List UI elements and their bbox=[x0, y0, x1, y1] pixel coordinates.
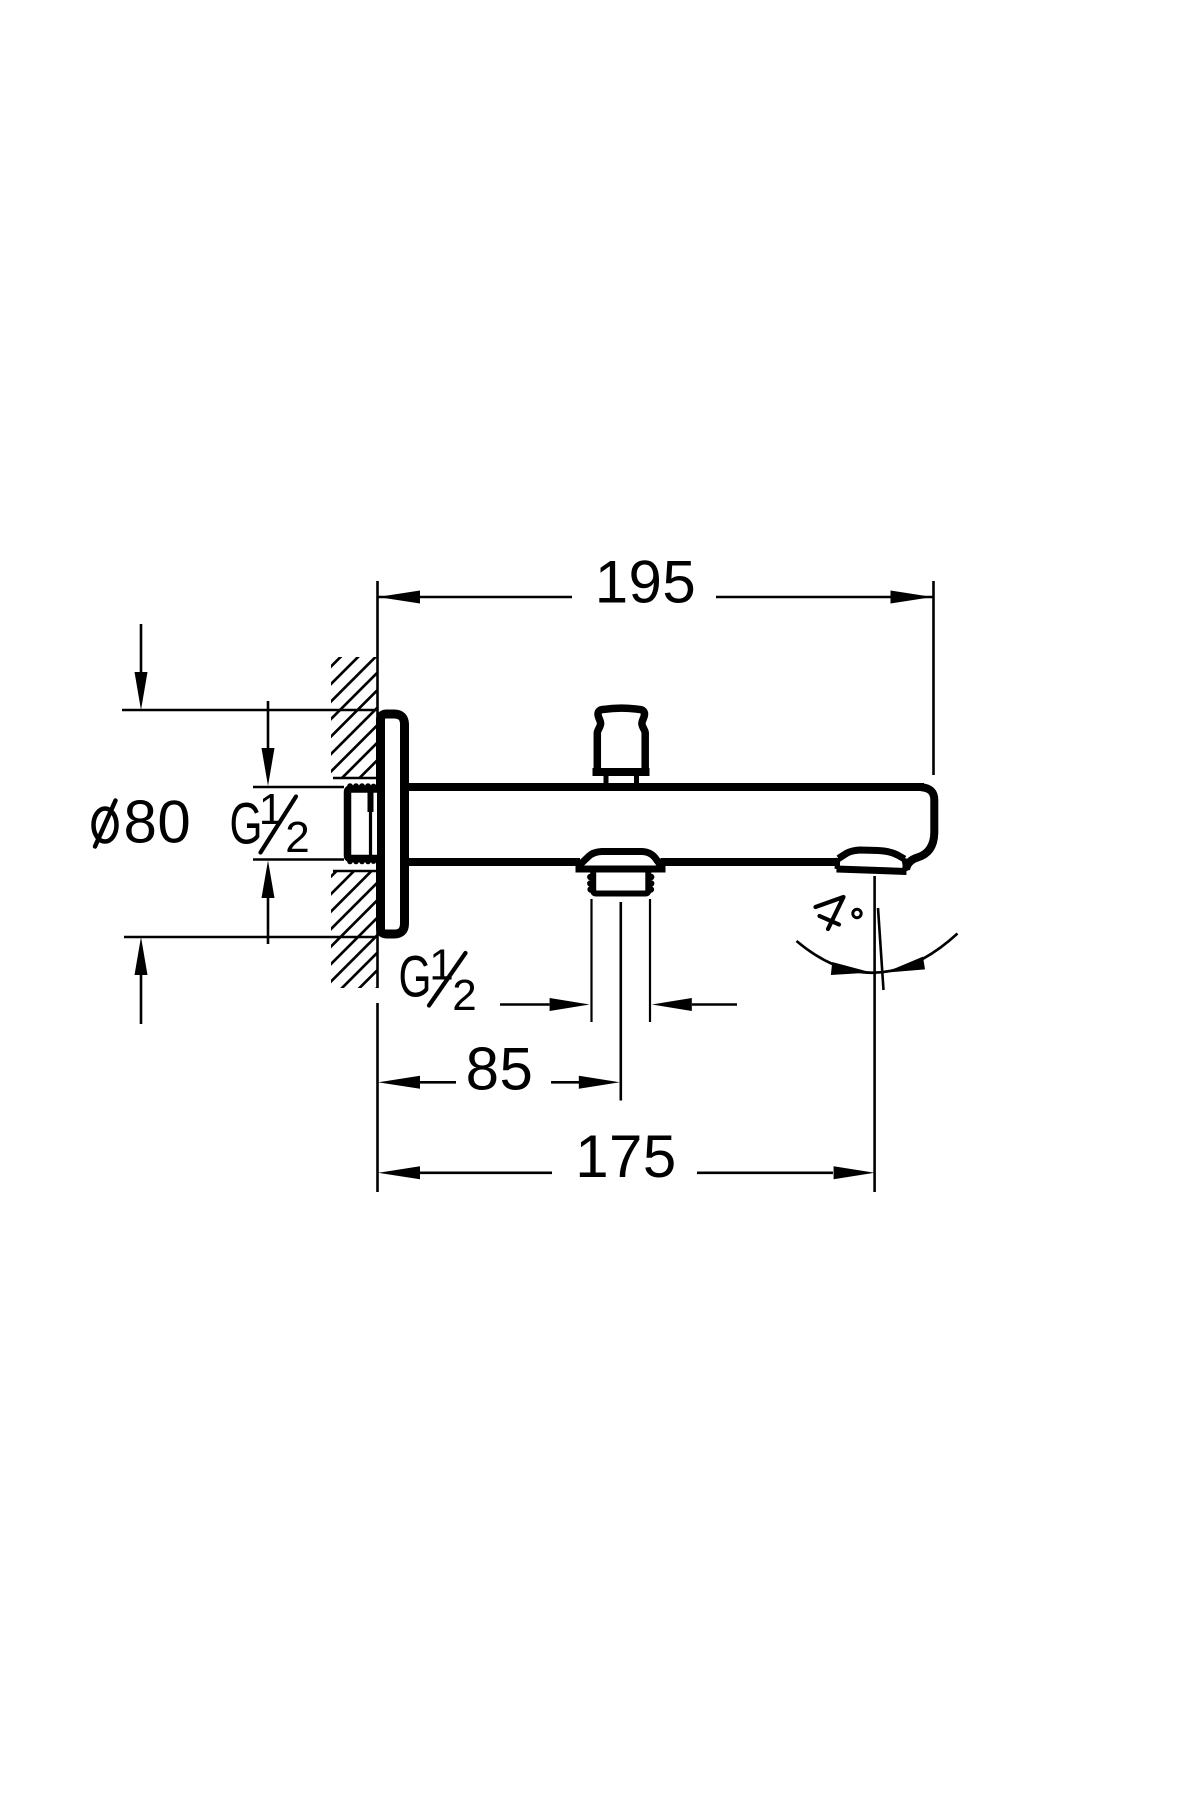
svg-text:195: 195 bbox=[595, 549, 697, 616]
svg-text:G: G bbox=[399, 945, 432, 1010]
svg-text:175: 175 bbox=[575, 1123, 677, 1190]
svg-text:85: 85 bbox=[466, 1036, 534, 1103]
svg-text:80: 80 bbox=[124, 789, 192, 856]
svg-text:1: 1 bbox=[259, 785, 283, 834]
svg-text:2: 2 bbox=[452, 971, 476, 1020]
svg-text:1: 1 bbox=[429, 941, 453, 990]
svg-text:G: G bbox=[230, 792, 263, 857]
svg-text:2: 2 bbox=[285, 813, 309, 862]
